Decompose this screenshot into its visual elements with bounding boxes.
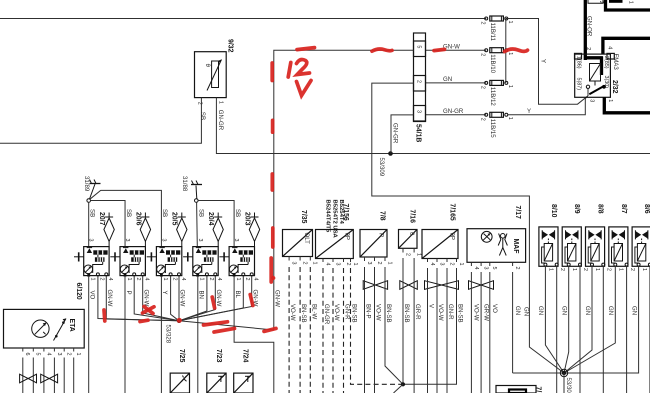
svg-text:7/25: 7/25 (178, 349, 185, 363)
svg-text:GN: GN (561, 306, 568, 315)
svg-text:2: 2 (244, 278, 250, 281)
wire BN: 20/4 pin1 down to bottom edge (197, 277, 199, 393)
fuse holder box (top right, thick) (606, 0, 650, 10)
wire: 8/8 pin2 down to bottom edge (602, 266, 604, 393)
svg-text:BN-SB: BN-SB (457, 304, 464, 323)
svg-text:2: 2 (629, 268, 635, 271)
svg-text:GN-GR: GN-GR (443, 108, 464, 115)
svg-text:1: 1 (386, 262, 392, 265)
icon of 7/25 (182, 376, 187, 382)
svg-text:7/17: 7/17 (514, 206, 521, 220)
wire Y: 20/5 pin1 down to bottom edge (160, 277, 162, 393)
svg-text:8/8: 8/8 (597, 204, 604, 214)
wire VO-W: 7/156 dashed down (332, 268, 334, 393)
pin 2 of 6/120 (63, 348, 65, 352)
wire Y: from 11B/15 to relay pin 3 (508, 96, 588, 115)
red annotation: tick on top GN-W line left (297, 48, 315, 50)
svg-text:SB: SB (234, 209, 241, 217)
wire BN-SB: 7/16 pin2 down to node2 (402, 258, 404, 384)
svg-text:8/10: 8/10 (550, 204, 557, 218)
svg-text:BN-SB: BN-SB (385, 304, 392, 323)
wire GN: 7/17 pin2 down to injector ground bus (512, 272, 514, 373)
svg-text:1: 1 (507, 117, 513, 120)
wire: thick battery feed from relay pin 1 (604, 97, 650, 113)
svg-text:11B/12: 11B/12 (489, 87, 496, 106)
svg-text:20/6: 20/6 (134, 212, 141, 226)
svg-text:VO-W: VO-W (375, 304, 382, 321)
svg-text:SB: SB (125, 209, 132, 217)
pin 3 of 7/8 (364, 257, 366, 261)
wire GN-GR: 54/1B pin3 left lead down to node 53/309 (391, 115, 414, 154)
svg-text:3: 3 (88, 239, 94, 242)
wire: 6/120 pin 2 down to bottom edge (63, 358, 65, 393)
pin 2 of 7/35 (299, 257, 301, 261)
svg-text:Y: Y (161, 291, 168, 295)
wire: top feed line to 11B/11 (0, 18, 486, 20)
wire GN-R: 7/165 down (446, 268, 448, 393)
connector 11B/11 (485, 16, 508, 21)
pin 1 of 7/156 (350, 259, 352, 263)
pin 1 of 9/32 (215, 98, 217, 102)
svg-text:θP: θP (448, 233, 455, 240)
pin 2 of 7/156 (343, 259, 345, 263)
svg-text:GN-GR: GN-GR (391, 123, 398, 144)
ignition coil 20/7 (74, 213, 114, 277)
svg-text:Y: Y (527, 108, 531, 115)
wire GN: 8/7 pin1 to node 53/30 (564, 266, 615, 373)
wire: 6/120 pin 6 down to bottom edge (22, 358, 24, 393)
svg-text:GN: GN (607, 306, 614, 315)
sensor 7/8 (360, 230, 387, 258)
wire VO: 7/17 down (489, 272, 491, 393)
svg-text:20/5: 20/5 (171, 212, 178, 226)
svg-text:4: 4 (429, 263, 435, 266)
wire GN-GR: 9/32 pin1 across page to right edge (216, 102, 650, 154)
sensor 7/23 (partial at bottom) (207, 373, 226, 393)
svg-text:3: 3 (415, 110, 421, 113)
svg-text:1: 1 (126, 278, 132, 281)
svg-text:7/35: 7/35 (300, 210, 307, 224)
svg-text:3: 3 (197, 239, 203, 242)
svg-text:B5254T2 USA: B5254T2 USA (331, 200, 337, 239)
svg-text:3: 3 (291, 262, 297, 265)
svg-text:BN-SB: BN-SB (300, 304, 307, 323)
pin 2 of 7/8 (374, 257, 376, 261)
svg-text:5: 5 (491, 267, 497, 270)
pin 1 of 7/165 (456, 259, 458, 263)
pin 4 of 7/156 (322, 259, 324, 263)
svg-text:31/89: 31/89 (83, 176, 90, 192)
svg-text:2: 2 (514, 267, 520, 270)
wire: 8/9 pin2 down to bottom edge (579, 266, 581, 393)
svg-text:2: 2 (404, 253, 410, 256)
pin 2 of 7/16 (402, 248, 404, 252)
relay coil circuit (thick) (586, 57, 603, 76)
wire VO: 20/7 pin1 down to bottom edge (88, 277, 90, 393)
svg-text:1: 1 (618, 268, 624, 271)
wire SB: 9/32 pin2 to left edge (0, 102, 201, 143)
wire GR-R: 7/16 pin1 down (413, 258, 415, 393)
throttle unit 6/120 (4, 309, 85, 348)
wire: 6/120 pin 3 down to bottom edge (53, 358, 55, 393)
svg-text:1: 1 (507, 85, 513, 88)
wire GN-W: 20/7 pin2 to node 53/328 (98, 276, 179, 321)
svg-text:GN: GN (584, 306, 591, 315)
svg-text:BN-P: BN-P (365, 304, 372, 319)
wire P: 20/6 pin1 down to bottom edge (124, 277, 126, 393)
svg-text:4: 4 (253, 278, 259, 281)
wire SB: 31/88 to 20/4 (196, 202, 199, 246)
svg-text:4: 4 (107, 278, 113, 281)
red annotation: stroke on bus right of node 2 (214, 328, 235, 332)
ignition coil 20/4 (183, 213, 223, 277)
wire GN-W: 20/6 pin2 to node 53/328 (134, 276, 179, 321)
svg-text:GN: GN (537, 306, 544, 315)
svg-text:3: 3 (483, 267, 489, 270)
svg-text:3: 3 (334, 263, 340, 266)
connector 11B/15 (485, 112, 508, 117)
wire VO-W: 7/8 pin2 down (374, 267, 376, 393)
svg-text:7/23: 7/23 (215, 349, 222, 363)
svg-text:GN-W: GN-W (106, 290, 113, 307)
red annotation: cross on 20/6 pin4 wire (143, 307, 155, 314)
connector 11B/12 (485, 80, 508, 85)
wire: 8/7 pin2 down to bottom edge (626, 266, 628, 393)
wire: injector GN ground bus (513, 372, 639, 374)
wire SB: 31/89 to 20/7 (88, 202, 90, 246)
ignition coil 20/5 (147, 213, 187, 277)
fuse element (609, 0, 623, 3)
pin 4 of 7/17 (470, 262, 472, 266)
svg-text:8/9: 8/9 (573, 204, 580, 214)
sensor 7/24 (partial at bottom) (234, 373, 253, 393)
node 53/30 (560, 369, 567, 376)
wire GN-W: 20/4 pin4 to node 53/328 (179, 276, 215, 321)
pin 1 of 7/35 (309, 257, 311, 261)
svg-text:GR-W: GR-W (482, 304, 489, 321)
svg-text:7/165: 7/165 (449, 204, 456, 221)
svg-text:1: 1 (607, 99, 613, 102)
svg-text:1: 1 (416, 253, 422, 256)
wire BN-SB: 7/35 dashed down (299, 267, 301, 393)
sensor 7/156 (316, 230, 354, 259)
svg-text:53/309: 53/309 (378, 158, 385, 177)
svg-text:2: 2 (582, 268, 588, 271)
svg-text:VO-W: VO-W (333, 304, 340, 321)
wire GR-W: 7/17 down (480, 272, 482, 393)
svg-text:P: P (378, 233, 385, 237)
svg-text:3: 3 (438, 263, 444, 266)
wire V: 7/165 down (427, 268, 429, 393)
svg-text:P: P (125, 291, 132, 295)
wire GN: 8/8 pin1 to node 53/30 (564, 266, 592, 373)
svg-text:31/88: 31/88 (181, 176, 188, 192)
mass air flow sensor 7/17 (467, 229, 526, 263)
svg-text:GN: GN (514, 306, 521, 315)
pin 3 of 7/17 (480, 262, 482, 266)
svg-text:5(87): 5(87) (575, 78, 581, 91)
red annotation: dash on 20/7 pin4 wire (102, 310, 107, 321)
svg-text:B5254T4: B5254T4 (338, 200, 344, 225)
red annotation: dash on GN-W feed mid2 (270, 174, 274, 190)
pin 5 of 7/17 (489, 262, 491, 266)
svg-text:GN-W: GN-W (142, 290, 149, 307)
red annotation: tick on GN-W near 54/1B (372, 49, 392, 51)
svg-text:6: 6 (24, 353, 30, 356)
svg-text:2: 2 (606, 268, 612, 271)
svg-text:1: 1 (75, 353, 81, 356)
wire Y: from 11B group to relay pin 3 (506, 19, 588, 105)
pin 3 of 6/120 (53, 348, 55, 352)
wire GN: 8/9 pin1 to node 53/30 (564, 266, 569, 373)
red annotation: dash on 20/4 pin4 wire (212, 297, 214, 308)
red annotation: check mark (297, 81, 312, 96)
wire: 8/6 pin2 down to bottom edge (649, 266, 650, 393)
wire: 6/120 pin 5 down to bottom edge (32, 358, 34, 393)
svg-text:2: 2 (99, 278, 105, 281)
sensor 7/35 (283, 230, 313, 257)
svg-text:2: 2 (171, 278, 177, 281)
svg-text:2: 2 (480, 53, 486, 56)
twisted pair symbol 7/17 (469, 281, 482, 290)
svg-text:SB: SB (198, 209, 205, 217)
pin 4 of 6/120 (43, 348, 45, 352)
wire VO-W: 7/17 down (470, 272, 472, 393)
wire GN-OR: thick feed from top to relay coil (584, 0, 587, 60)
wire GN-W: node 53/328 to main GN-W feed corner (179, 321, 274, 330)
person icon (498, 234, 507, 256)
svg-text:7/16: 7/16 (409, 210, 416, 224)
wire GN-W: 20/5 pin2 to node 53/328 (171, 276, 179, 321)
svg-text:4: 4 (45, 353, 51, 356)
svg-text:θ: θ (204, 64, 211, 68)
pin 2 of 7/17 (512, 262, 514, 266)
svg-text:2: 2 (345, 263, 351, 266)
svg-text:MAF: MAF (512, 239, 519, 254)
svg-text:GN-OR: GN-OR (586, 16, 593, 37)
svg-text:5: 5 (415, 45, 421, 48)
svg-text:3: 3 (160, 239, 166, 242)
fan symbol (481, 231, 492, 242)
svg-text:1: 1 (641, 268, 647, 271)
svg-text:8/6: 8/6 (643, 204, 650, 214)
red annotation: handwritten 12 (288, 60, 309, 78)
wire BN-SB: 7/165 pin1 down to node2 (403, 268, 457, 384)
svg-text:54/1B: 54/1B (415, 124, 422, 142)
component box at bottom (partial) (496, 386, 536, 393)
connector pin box 2 at top edge (588, 0, 604, 4)
wire: GN-GR from 54/1B pin3 to 11B/15 (426, 114, 487, 116)
red annotation: dot near GN-W (271, 276, 275, 280)
connector 11B/10 (485, 48, 508, 53)
wire GN-W: 20/3 pin2 to node 53/328 (179, 276, 243, 321)
wire: 6/120 pin 1 down to bottom edge (73, 358, 75, 393)
svg-text:2: 2 (66, 353, 72, 356)
twisted pair symbol 7/165 (425, 281, 442, 290)
node 53/309 (388, 151, 393, 156)
svg-text:θP: θP (344, 233, 351, 240)
svg-text:VO-W: VO-W (437, 304, 444, 321)
wire BN-SB: 7/156 pin1 dashed to node2 (351, 268, 404, 384)
node 53/328 (177, 319, 181, 323)
svg-text:4: 4 (216, 278, 222, 281)
pin 3 of 7/156 (332, 259, 334, 263)
wire: junction continuation off page (394, 384, 404, 393)
red annotation: scribble at 11B/10 pin1 (505, 49, 528, 52)
twisted pair symbol 6/120 pins 4-3 (41, 374, 50, 383)
svg-text:7/8: 7/8 (378, 211, 385, 221)
svg-text:20/7: 20/7 (98, 212, 105, 226)
svg-text:3: 3 (589, 99, 595, 102)
red annotation: stroke at GN-W corner (264, 328, 276, 331)
svg-text:11B/15: 11B/15 (489, 119, 496, 138)
pin 4 of 7/165 (427, 259, 429, 263)
wire GN-W: 20/3 pin4 to node 53/328 (179, 276, 252, 321)
svg-text:1: 1 (218, 101, 224, 104)
red annotation: dash on 20/3 pin2 wire (250, 295, 253, 306)
connector 54/1B (414, 33, 426, 122)
svg-text:GN-GR: GN-GR (217, 110, 224, 131)
red annotation: dash on GN-W feed lower (271, 228, 275, 247)
svg-text:2: 2 (448, 263, 454, 266)
relay holder box (thick, right) (603, 38, 650, 54)
pin 5 of 6/120 (32, 348, 34, 352)
wire: node 53/30 down to bottom edge (563, 373, 565, 393)
svg-text:GN: GN (443, 76, 452, 83)
twisted pair symbol 6/120 pins 6-5 (20, 374, 29, 383)
wire GN: 8/10 pin1 to node 53/30 (545, 266, 564, 373)
pin 3 of 7/35 (288, 257, 290, 261)
pin 1 of 7/16 (413, 248, 415, 252)
svg-text:ETA: ETA (68, 319, 75, 332)
svg-text:3(30): 3(30) (603, 76, 609, 89)
svg-text:6/120: 6/120 (75, 283, 82, 300)
ground 31/88 (191, 181, 202, 203)
wire GN-W: 54/1B pin5 left then down the long GN-W feed (274, 50, 414, 330)
svg-text:BN-SB: BN-SB (403, 304, 410, 323)
svg-text:7/: 7/ (534, 387, 541, 393)
motor gauge symbol (32, 320, 49, 337)
wire GN-W: 20/4 pin2 to node 53/328 (179, 276, 207, 321)
svg-text:SB: SB (199, 112, 206, 120)
svg-text:2: 2 (415, 80, 421, 83)
svg-text:2: 2 (135, 278, 141, 281)
svg-text:4: 4 (180, 278, 186, 281)
svg-text:1: 1 (458, 263, 464, 266)
red annotation: dash left of node 53/328 (140, 320, 148, 321)
svg-text:BN-SB: BN-SB (351, 304, 358, 323)
twisted pair symbol 7/8 (363, 281, 375, 290)
ground 31/89 (87, 180, 101, 203)
svg-text:GN-W: GN-W (215, 290, 222, 307)
svg-text:GR-R: GR-R (414, 304, 421, 320)
red annotation: tick on GN-W right of 54/1B (434, 49, 445, 50)
svg-text:1: 1 (507, 52, 513, 55)
relay terminal box right (607, 53, 614, 59)
svg-text:2: 2 (376, 262, 382, 265)
svg-text:GN-R: GN-R (447, 304, 454, 320)
svg-text:GN-GR: GN-GR (323, 304, 330, 325)
svg-text:1: 1 (312, 262, 318, 265)
svg-text:11B/10: 11B/10 (489, 54, 496, 73)
pin 2 of 7/165 (446, 259, 448, 263)
svg-text:4: 4 (324, 263, 330, 266)
svg-text:1: 1 (199, 278, 205, 281)
svg-text:1: 1 (162, 278, 168, 281)
wire GN: 8/6 pin1 to node 53/30 (564, 266, 639, 373)
svg-text:2: 2 (480, 118, 486, 121)
svg-text:1: 1 (90, 278, 96, 281)
svg-text:GN-W: GN-W (179, 290, 186, 307)
svg-text:BL-W: BL-W (310, 304, 317, 319)
svg-text:GN: GN (522, 307, 529, 316)
pin 3 of 7/165 (436, 259, 438, 263)
wire BL-W: 7/35 dashed down (309, 267, 311, 393)
pin 2 of 9/32 (200, 98, 202, 102)
icon T of 7/23 (218, 376, 224, 382)
svg-text:3: 3 (56, 353, 62, 356)
wire SB: 31/89 to 20/5 (90, 190, 161, 246)
svg-text:VO: VO (491, 304, 498, 313)
svg-text:2/32: 2/32 (611, 80, 618, 94)
wire SB: 31/88 to 20/3 (198, 201, 234, 247)
wire GN-W: 20/6 pin4 to node 53/328 (143, 276, 179, 321)
svg-text:Y: Y (539, 59, 546, 63)
relay terminal box left (575, 53, 582, 59)
svg-text:2: 2 (559, 268, 565, 271)
svg-text:1: 1 (571, 268, 577, 271)
wire GN: 54/1B pin2 left, down, right and down to injector node (372, 83, 564, 373)
injector 8/9 (562, 227, 581, 266)
svg-text:BL: BL (234, 291, 241, 299)
svg-text:1: 1 (548, 268, 554, 271)
relay contact (586, 85, 606, 96)
pin 1 of 6/120 (73, 348, 75, 352)
svg-text:1(86): 1(86) (575, 56, 581, 69)
wire BN-P: 7/8 pin3 down (364, 267, 366, 393)
red annotation: dot on node 53/328 (177, 318, 182, 323)
pin 6 of 6/120 (22, 348, 24, 352)
injector 8/7 (609, 227, 628, 266)
relay coil element (590, 64, 601, 86)
svg-text:53/30: 53/30 (565, 378, 572, 393)
svg-text:GN-R: GN-R (344, 304, 351, 320)
svg-text:2: 2 (585, 47, 591, 50)
red annotation: stroke on bus right of node 1 (204, 322, 228, 325)
svg-text:3: 3 (366, 262, 372, 265)
wire GN-R: 7/156 dashed down (343, 268, 345, 393)
svg-text:53/328: 53/328 (164, 325, 171, 344)
wire GN-W: 20/7 pin4 to node 53/328 (106, 276, 179, 321)
svg-text:3: 3 (233, 239, 239, 242)
svg-text:BN: BN (197, 291, 204, 299)
twisted pair symbol 7/16 (400, 281, 409, 290)
node shield junction (401, 382, 405, 386)
injector 8/10 (539, 227, 558, 266)
sensor 7/16 (399, 230, 418, 249)
svg-text:1: 1 (352, 263, 358, 266)
svg-text:8/7: 8/7 (620, 204, 627, 214)
injector 8/6 (632, 227, 650, 266)
svg-text:20/4: 20/4 (207, 212, 214, 226)
wire: 6/120 pin 4 down to bottom edge (43, 358, 45, 393)
svg-text:SB: SB (89, 209, 96, 217)
svg-text:1: 1 (594, 268, 600, 271)
svg-text:11B/11: 11B/11 (489, 23, 496, 42)
svg-text:4: 4 (473, 267, 479, 270)
wire VO-W: 7/165 down (436, 268, 438, 393)
wire SB: 31/89 to 20/6 (90, 201, 125, 247)
